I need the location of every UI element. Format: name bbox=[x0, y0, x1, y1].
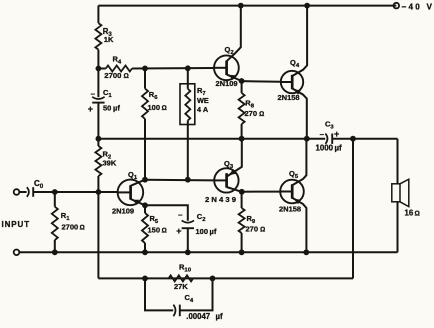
svg-text:+: + bbox=[88, 104, 93, 114]
svg-text:Ω: Ω bbox=[415, 211, 420, 218]
capacitor C1 bbox=[88, 69, 121, 139]
svg-text:−: − bbox=[91, 90, 96, 99]
resistor R10 bbox=[169, 263, 194, 292]
transistor Q1 2N109 bbox=[112, 170, 145, 216]
svg-text:100: 100 bbox=[196, 227, 209, 236]
terminal -40V supply bbox=[394, 3, 434, 12]
svg-text:2700: 2700 bbox=[104, 71, 121, 80]
node R1 bottom bbox=[52, 249, 58, 255]
svg-text:µf: µf bbox=[210, 227, 217, 236]
svg-text:1000: 1000 bbox=[316, 144, 334, 153]
capacitor C2 bbox=[176, 211, 217, 253]
svg-text:Ω: Ω bbox=[260, 227, 265, 234]
svg-text:39K: 39K bbox=[103, 159, 117, 168]
wire speaker bottom bbox=[397, 202, 399, 253]
node C3 output bbox=[350, 136, 356, 142]
node Q1 base junction bbox=[96, 189, 102, 195]
node Q1 collector / R6 bbox=[142, 177, 148, 183]
label INPUT bbox=[2, 220, 31, 229]
node R8 bottom / Q3 emitter bbox=[239, 136, 245, 142]
resistor R3 bbox=[95, 6, 114, 69]
svg-text:+: + bbox=[334, 129, 339, 139]
wire speaker top bbox=[397, 139, 399, 184]
node R10 right / C4 bbox=[210, 276, 216, 282]
node Q4 emitter rail bbox=[304, 3, 310, 9]
wire C3 to speaker node bbox=[332, 138, 397, 140]
node Q2 collector / R8 bbox=[239, 78, 245, 84]
svg-text:−40 V: −40 V bbox=[402, 3, 434, 12]
transistor Q3 2N439 bbox=[205, 139, 242, 204]
node R10 left / C4 bbox=[142, 276, 148, 282]
wire top supply rail bbox=[98, 5, 396, 7]
wire ground rail bbox=[19, 251, 397, 253]
resistor R4 bbox=[98, 55, 132, 81]
resistor R7 WE 4A bbox=[180, 65, 209, 179]
svg-text:270: 270 bbox=[246, 225, 259, 234]
terminal input top bbox=[14, 189, 20, 195]
wire R4 to Q2 base bbox=[132, 67, 214, 70]
node A (R3-R4-C1 junction) bbox=[96, 66, 102, 72]
resistor R2 bbox=[95, 139, 116, 192]
wire input line bbox=[33, 191, 118, 193]
node R9 bottom bbox=[239, 249, 245, 255]
resistor R1 bbox=[52, 192, 85, 252]
capacitor C3 bbox=[316, 120, 343, 153]
node Q1 emitter / R5 bbox=[142, 202, 148, 208]
resistor R9 bbox=[239, 192, 266, 253]
wire Q3 collector to Q5 base bbox=[242, 191, 280, 193]
svg-text:µf: µf bbox=[216, 312, 223, 321]
transistor Q2 2N109 bbox=[214, 6, 242, 88]
svg-text:100: 100 bbox=[148, 103, 161, 112]
svg-text:µf: µf bbox=[335, 144, 343, 153]
resistor R8 bbox=[239, 81, 265, 139]
wire Q1 collector line bbox=[145, 179, 214, 182]
transistor Q4 2N158 bbox=[278, 6, 308, 139]
node Q3 collector / R9 bbox=[239, 189, 245, 195]
svg-text:1K: 1K bbox=[104, 35, 114, 44]
wire Q2 collector to Q4 base bbox=[242, 80, 281, 83]
node C1-R2 junction bbox=[96, 136, 102, 142]
svg-text:16: 16 bbox=[405, 209, 414, 218]
svg-text:Ω: Ω bbox=[80, 225, 85, 232]
svg-text:+: + bbox=[176, 226, 181, 236]
svg-text:INPUT: INPUT bbox=[2, 220, 31, 229]
node output (Q4-Q5-C3) bbox=[304, 136, 310, 142]
node Q2 emitter rail bbox=[238, 3, 244, 9]
capacitor C4 bbox=[145, 278, 223, 321]
node R7 bottom bbox=[185, 177, 191, 183]
resistor R5 bbox=[142, 205, 167, 252]
wire bootstrap rail bbox=[98, 138, 325, 140]
svg-text:−: − bbox=[320, 130, 325, 139]
svg-text:WE: WE bbox=[197, 96, 209, 105]
svg-text:150: 150 bbox=[148, 226, 161, 235]
svg-text:Ω: Ω bbox=[259, 111, 264, 118]
node Q5 collector bottom bbox=[303, 249, 309, 255]
svg-text:.00047: .00047 bbox=[186, 312, 210, 321]
transistor Q5 2N158 bbox=[279, 139, 306, 253]
svg-text:2N158: 2N158 bbox=[279, 205, 301, 214]
wire feedback rail bbox=[98, 277, 353, 279]
node R1 top bbox=[52, 189, 58, 195]
svg-text:270: 270 bbox=[245, 109, 258, 118]
wire Q1 emitter line bbox=[145, 205, 188, 221]
svg-text:27K: 27K bbox=[174, 282, 188, 291]
svg-text:Ω: Ω bbox=[162, 228, 167, 235]
svg-text:2N109: 2N109 bbox=[112, 207, 134, 216]
svg-text:Ω: Ω bbox=[162, 105, 167, 112]
node C2 bottom bbox=[185, 249, 191, 255]
svg-text:2N439: 2N439 bbox=[205, 195, 238, 204]
svg-text:4 A: 4 A bbox=[197, 105, 209, 114]
svg-text:2700: 2700 bbox=[62, 223, 79, 232]
svg-text:µf: µf bbox=[113, 104, 120, 113]
node R5 bottom bbox=[142, 249, 148, 255]
svg-text:2N158: 2N158 bbox=[278, 93, 300, 102]
terminal input bottom bbox=[14, 250, 20, 256]
speaker 16 ohm bbox=[392, 179, 420, 217]
svg-text:−: − bbox=[178, 211, 183, 220]
wire output to feedback rail bbox=[352, 139, 354, 279]
wire Q1 base to feedback rail bbox=[97, 192, 99, 278]
svg-text:50: 50 bbox=[103, 104, 111, 113]
svg-text:Ω: Ω bbox=[124, 73, 129, 80]
svg-text:2N109: 2N109 bbox=[216, 79, 238, 88]
resistor R6 bbox=[142, 66, 167, 180]
capacitor C0 bbox=[19, 179, 44, 197]
